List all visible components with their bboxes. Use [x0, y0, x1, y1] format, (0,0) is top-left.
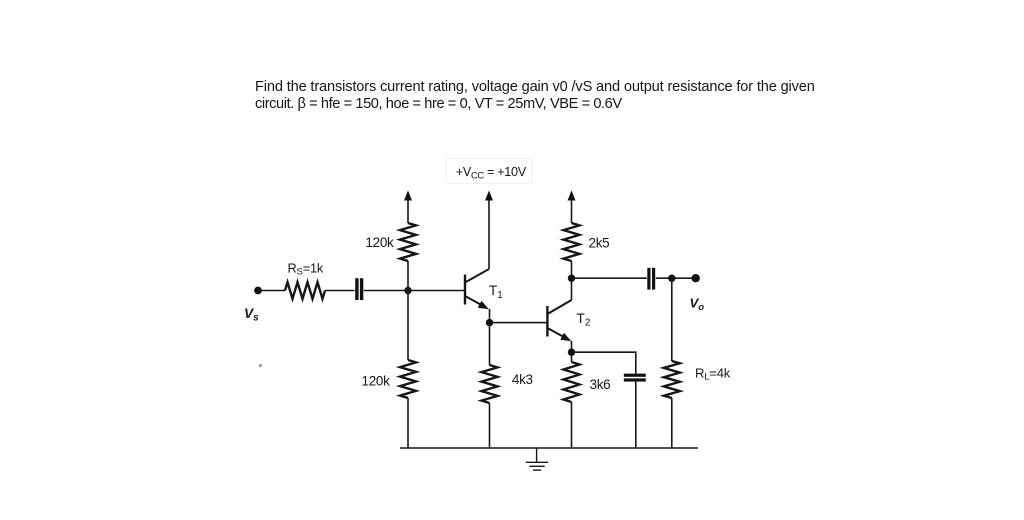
output terminal dot Vo — [692, 274, 700, 282]
wire collector node down to T2 collector — [571, 278, 573, 300]
resistor R5 3k6 (T2 emitter) — [564, 362, 580, 402]
wire C3 bottom to ground rail — [635, 382, 637, 448]
svg-text:3k6: 3k6 — [590, 377, 611, 392]
faint box around Vcc label — [446, 159, 532, 184]
wire R5 bottom to ground rail — [571, 402, 573, 448]
wire T2 emitter node to bypass capacitor C3 — [572, 352, 636, 373]
node: T1 base junction — [404, 287, 411, 294]
node: T2 collector junction — [568, 275, 575, 282]
wire base node down to R2 — [407, 291, 409, 361]
svg-text:120k: 120k — [362, 373, 391, 388]
Vcc arrow above R1 (120k upper) — [404, 191, 412, 224]
svg-text:Vs: Vs — [244, 306, 259, 323]
resistor R1 120k (upper bias) — [400, 223, 416, 261]
svg-text:120k: 120k — [365, 235, 394, 250]
capacitor C3 (emitter bypass) — [624, 374, 646, 382]
svg-text:T1: T1 — [489, 283, 503, 301]
wire emitter node down to R4 — [489, 323, 491, 365]
resistor R4 4k3 (T1 emitter load) — [482, 365, 498, 403]
wire collector node to output capacitor C2 — [572, 277, 647, 279]
svg-text:+VCC = +10V: +VCC = +10V — [456, 165, 527, 180]
ground rail — [400, 447, 698, 449]
wire T1 emitter to emitter node — [489, 309, 491, 323]
Vcc arrow for T1 collector — [485, 191, 493, 270]
transistor T2 (npn common emitter) — [547, 300, 571, 341]
resistor R3 2k5 (T2 collector load) — [564, 223, 580, 261]
svg-text:2k5: 2k5 — [589, 235, 610, 250]
capacitor C1 (input coupling) — [355, 278, 363, 300]
wire T1 emitter node to T2 base — [490, 322, 548, 324]
stray faint dot mark — [259, 364, 262, 367]
wire R1 bottom to base node — [407, 261, 409, 291]
wire R2 bottom to ground rail — [407, 398, 409, 448]
wire C2 to output node — [656, 277, 696, 279]
wire Vs terminal to resistor RS — [258, 290, 285, 292]
resistor RS=1k (source resistance, horizontal) — [285, 282, 325, 299]
problem statement text — [255, 79, 815, 114]
svg-text:RS=1k: RS=1k — [288, 260, 324, 277]
resistor R2 120k (lower bias) — [400, 360, 416, 398]
svg-text:T2: T2 — [576, 311, 590, 329]
wire emitter node down to R5 — [571, 352, 573, 362]
wire RL bottom to ground rail — [671, 398, 673, 448]
wire T2 emitter to emitter node — [571, 341, 573, 352]
Vcc arrow above R3 (2k5) — [568, 191, 576, 224]
wire output node down to RL — [671, 278, 673, 361]
svg-text:4k3: 4k3 — [512, 372, 533, 387]
svg-text:RL=4k: RL=4k — [695, 366, 731, 383]
ground symbol — [526, 448, 549, 470]
capacitor C2 (output coupling) — [647, 268, 655, 290]
svg-text:Vo: Vo — [690, 296, 705, 313]
transistor T1 (npn emitter follower) — [465, 269, 489, 309]
resistor RL=4k (load) — [664, 361, 680, 398]
node: T1 emitter junction — [486, 319, 493, 326]
node: output junction — [668, 275, 675, 282]
wire C1 to base node of T1 — [364, 290, 465, 292]
input terminal dot Vs — [254, 287, 262, 295]
wire R3 bottom to collector node — [571, 261, 573, 278]
wire RS to coupling capacitor C1 — [325, 290, 355, 292]
wire R4 bottom to ground rail — [489, 403, 491, 448]
node: T2 emitter junction — [568, 349, 575, 356]
